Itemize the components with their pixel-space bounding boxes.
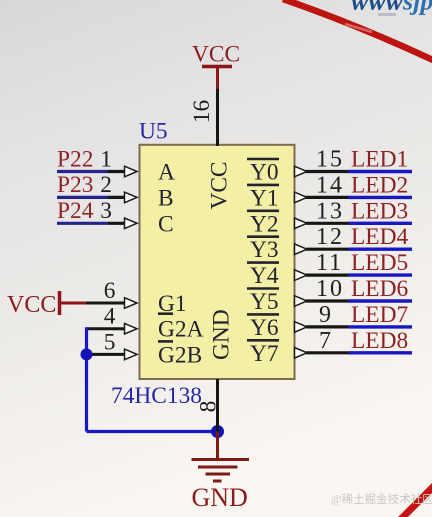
svg-text:4: 4 [104,304,116,330]
svg-text:13: 13 [316,198,344,224]
svg-text:LED8: LED8 [351,328,408,354]
svg-text:VCC: VCC [192,42,240,68]
svg-text:9: 9 [319,302,333,328]
svg-text:G1: G1 [158,291,187,317]
svg-text:LED3: LED3 [351,198,408,224]
svg-text:Y4: Y4 [250,263,279,289]
svg-text:Y7: Y7 [250,341,279,367]
svg-text:Y5: Y5 [250,289,279,315]
svg-text:5: 5 [104,329,116,355]
svg-text:LED6: LED6 [351,276,408,302]
svg-text:Y0: Y0 [250,160,279,186]
svg-text:LED2: LED2 [351,172,408,198]
svg-text:LED7: LED7 [351,302,408,328]
svg-text:Y3: Y3 [250,237,279,263]
svg-text:6: 6 [104,278,116,304]
svg-text:GND: GND [192,483,248,512]
svg-text:16: 16 [189,100,215,123]
svg-text:@稀土掘金技术社区: @稀土掘金技术社区 [331,492,432,506]
svg-text:LED4: LED4 [351,224,408,250]
svg-text:LED1: LED1 [351,147,408,173]
svg-text:A: A [158,160,175,186]
svg-text:G2B: G2B [158,342,202,368]
svg-text:U5: U5 [139,119,168,145]
svg-text:15: 15 [316,147,344,173]
svg-text:GND: GND [209,309,235,360]
svg-text:14: 14 [316,172,344,198]
svg-text:P23: P23 [57,172,93,198]
svg-text:8: 8 [196,401,222,413]
svg-text:C: C [158,211,174,237]
svg-text:2: 2 [100,172,112,198]
svg-text:10: 10 [316,276,344,302]
svg-text:G2A: G2A [158,317,204,343]
svg-text:VCC: VCC [7,292,56,318]
svg-text:7: 7 [319,328,333,354]
svg-text:12: 12 [316,224,344,250]
svg-text:VCC: VCC [207,161,233,209]
svg-text:P24: P24 [57,198,94,224]
svg-text:P22: P22 [57,146,93,172]
svg-text:LED5: LED5 [351,250,408,276]
svg-text:Y1: Y1 [250,185,279,211]
svg-text:74HC138: 74HC138 [111,383,202,409]
svg-text:Y2: Y2 [250,211,279,237]
svg-text:11: 11 [316,250,343,276]
svg-text:B: B [158,185,174,211]
svg-text:1: 1 [100,146,112,172]
svg-text:Y6: Y6 [250,315,279,341]
svg-text:3: 3 [100,198,112,224]
